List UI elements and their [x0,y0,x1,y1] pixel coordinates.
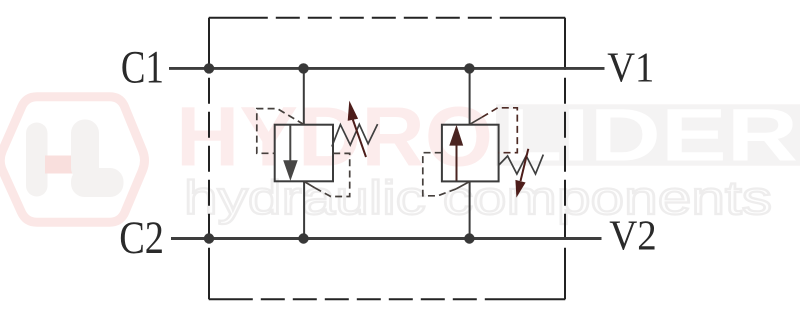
watermark hexagon logo [0,97,144,222]
junction node bottom valve 1 [298,233,308,243]
wire top rail to right valve [469,68,471,124]
pilot line left valve bottom solid diagonal [304,182,315,188]
watermark HL pink connector [45,156,72,174]
svg-text:V1: V1 [607,45,654,92]
junction node top valve 2 [464,63,474,73]
adjustment arrow left valve shaft [353,120,366,158]
svg-text:V2: V2 [609,213,657,260]
junction node top left [204,63,214,73]
svg-text:C1: C1 [121,42,164,94]
pilot line left valve top (dashed) [257,109,304,154]
svg-text:C2: C2 [119,212,164,264]
enclosure dashed box bottom edge [209,298,565,300]
wire C1 to V1 top rail [169,67,605,70]
spring right valve [498,155,543,174]
watermark gray box behind LIDER [496,104,800,165]
adjustment arrow right valve head [515,180,525,198]
spring left valve [332,124,378,146]
junction node bottom valve 2 [464,233,474,243]
watermark HL letter L stem [71,120,99,182]
flow arrow right valve head [449,125,463,146]
junction node top valve 1 [298,63,308,73]
junction node bottom left [204,233,214,243]
adjustment arrow right valve shaft [521,149,529,181]
wire left valve to bottom rail [303,181,305,238]
wire top rail to left valve [303,68,305,124]
adjustment arrow left valve head [348,101,358,121]
watermark HL letter L foot [71,168,124,197]
watermark HL letter H stem [26,123,48,197]
svg-text:hydraulic components: hydraulic components [184,171,772,224]
wire right valve to bottom rail [469,181,471,238]
pilot line right valve bottom solid diagonal [456,182,470,189]
pilot line right valve top (dashed) [482,108,517,153]
enclosure dashed box top edge [209,17,565,19]
pilot line right valve bottom (dashed) [423,153,456,196]
wire C2 to V2 bottom rail [171,237,602,240]
valve body left (relief valve 1) [275,125,333,182]
flow arrow left valve head [283,160,298,181]
valve body right (relief valve 2) [442,125,499,182]
pilot line left valve bottom (dashed) [315,153,350,196]
enclosure dashed box left edge [208,18,210,299]
svg-text:HYDRO: HYDRO [176,90,493,184]
svg-text:LIDER: LIDER [502,94,798,177]
pilot line right valve top solid diagonal [470,117,482,124]
enclosure dashed box right edge [564,18,566,299]
flow arrow right valve shaft [456,145,458,181]
flow arrow left valve shaft [289,125,291,161]
